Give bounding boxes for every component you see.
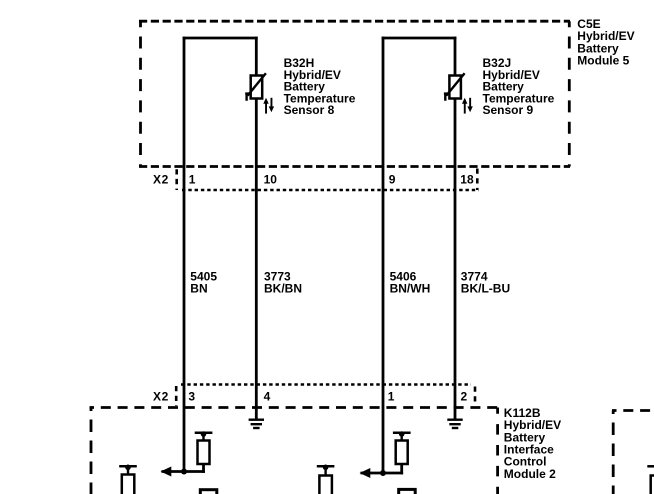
svg-text:4: 4	[264, 389, 271, 403]
wire: vertical from pin 1 top (x=184)	[183, 37, 186, 472]
svg-text:C5EHybrid/EVBatteryModule 5: C5EHybrid/EVBatteryModule 5	[577, 17, 634, 68]
partial resistor bottom-center	[317, 465, 335, 494]
svg-text:3: 3	[188, 389, 195, 403]
resistor lead upper	[401, 433, 403, 441]
resistor lead upper	[202, 433, 204, 441]
left arrow junction assembly	[161, 431, 213, 476]
wire horizontal to arrow	[162, 470, 205, 473]
svg-text:3774BK/L-BU: 3774BK/L-BU	[461, 269, 510, 295]
terminal bar	[195, 432, 213, 435]
svg-text:X2: X2	[153, 389, 169, 403]
right arrow junction assembly	[360, 431, 411, 478]
svg-text:K112BHybrid/EVBatteryInterface: K112BHybrid/EVBatteryInterfaceControlMod…	[504, 406, 561, 481]
arrowhead	[161, 467, 172, 477]
svg-text:3773BK/BN: 3773BK/BN	[264, 269, 302, 295]
wire: right circuit top horizontal	[382, 37, 457, 40]
wire: vertical from pin 9 top (x=383)	[382, 37, 385, 473]
module K112B box	[90, 408, 499, 494]
ground under pin 2	[447, 420, 462, 428]
arrowhead	[360, 468, 371, 478]
thermistor B32H	[245, 73, 266, 101]
svg-text:1: 1	[388, 389, 395, 403]
temperature arrows B32J	[462, 98, 473, 114]
svg-text:B32JHybrid/EVBatteryTemperatur: B32JHybrid/EVBatteryTemperatureSensor 9	[483, 56, 555, 117]
wire: vertical from pin 10 top (x=256.3)	[255, 37, 258, 420]
resistor lead lower	[400, 464, 403, 474]
partial resistor bottom-left	[119, 465, 137, 494]
partial box below right resistor	[399, 489, 416, 494]
resistor lead lower	[202, 464, 205, 473]
svg-text:10: 10	[264, 172, 278, 186]
connector X2 bottom row	[176, 385, 475, 407]
thermistor B32J	[444, 73, 465, 101]
wire horizontal to arrow	[361, 472, 404, 475]
partial resistor bottom-right edge	[647, 466, 654, 494]
resistor R right	[396, 441, 408, 465]
svg-text:B32HHybrid/EVBatteryTemperatur: B32HHybrid/EVBatteryTemperatureSensor 8	[284, 56, 356, 117]
terminal dot	[201, 431, 207, 437]
module C5E box	[139, 21, 570, 166]
module box right (partial)	[612, 411, 654, 494]
svg-text:18: 18	[460, 172, 474, 186]
temperature arrows B32H	[263, 98, 274, 114]
resistor R left	[198, 441, 210, 465]
svg-text:5406BN/WH: 5406BN/WH	[390, 269, 431, 295]
connector X2 top row	[177, 169, 479, 191]
terminal bar	[393, 432, 411, 435]
terminal dot	[399, 431, 405, 437]
wire: vertical from pin 18 top (x=455)	[454, 37, 457, 420]
svg-text:5405BN: 5405BN	[190, 269, 217, 295]
svg-text:X2: X2	[153, 172, 169, 186]
ground under pin 4	[249, 420, 264, 428]
svg-text:1: 1	[189, 172, 196, 186]
junction dot	[181, 469, 187, 475]
svg-text:2: 2	[461, 389, 468, 403]
svg-text:9: 9	[389, 172, 396, 186]
wire: left circuit top horizontal	[183, 37, 258, 40]
junction dot	[380, 470, 386, 476]
partial box below left resistor	[200, 490, 217, 494]
